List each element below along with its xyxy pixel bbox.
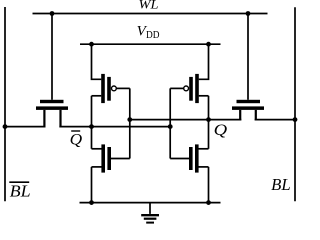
ground symbol [141, 203, 159, 223]
wire left gate rail (cross coupling) [129, 88, 131, 158]
wire ground rail (bottom horizontal) [80, 202, 221, 204]
wire right NMOS source to ground rail [208, 167, 210, 203]
node VDD junction dot right [206, 42, 211, 47]
label node Qbar [70, 131, 83, 148]
wire VDD rail [80, 43, 221, 45]
wire node Qbar left segment (BLbar to left access) [5, 126, 46, 128]
transistor N2 right NMOS [170, 144, 208, 172]
node Q junction dot at right inverter output [206, 117, 211, 122]
svg-text:BL: BL [10, 181, 31, 200]
node BL junction dot [293, 117, 298, 122]
transistor P1 left PMOS [92, 44, 130, 103]
wire WL to right access gate [247, 14, 249, 100]
label VDD [137, 24, 160, 41]
node BLbar junction dot [3, 124, 8, 129]
node WL junction dot left [50, 11, 55, 16]
wire node Q right segment (right access to BL) [255, 119, 295, 121]
wire WL (word line, top horizontal) [33, 13, 268, 15]
wire node Q left segment (left gate rail to right access) [130, 119, 242, 121]
wire BLbar bit line (left vertical) [4, 7, 6, 201]
transistor M6 right access NMOS [232, 100, 264, 121]
transistor P2 right PMOS [170, 44, 208, 103]
label BLbar [9, 181, 30, 200]
svg-text:DD: DD [146, 30, 160, 41]
transistor M5 left access NMOS [36, 100, 68, 128]
svg-text:BL: BL [271, 175, 291, 194]
node WL junction dot right [246, 11, 251, 16]
svg-text:Q: Q [70, 131, 83, 148]
wire right inverter output rail (P2 drain to N2 drain) [208, 96, 210, 149]
wire left inverter output rail (P1 drain to N1 drain) [91, 96, 93, 149]
wire right gate rail (cross coupling) [169, 88, 171, 158]
wire node Qbar right segment (left access to right gate rail) [59, 126, 170, 128]
transistor N1 left NMOS [92, 144, 130, 172]
node Q junction dot at left gate rail [127, 117, 132, 122]
svg-text:WL: WL [139, 0, 159, 12]
node Qbar junction dot at left inverter output [89, 124, 94, 129]
wire left NMOS source to ground rail [91, 167, 93, 203]
svg-text:Q: Q [214, 122, 228, 139]
wire BL bit line (right vertical) [294, 7, 296, 201]
node ground junction dot right [206, 200, 211, 205]
node VDD junction dot left [89, 42, 94, 47]
wire WL to left access gate [51, 14, 53, 100]
node ground junction dot left [89, 200, 94, 205]
node Qbar junction dot at right gate rail [168, 124, 173, 129]
